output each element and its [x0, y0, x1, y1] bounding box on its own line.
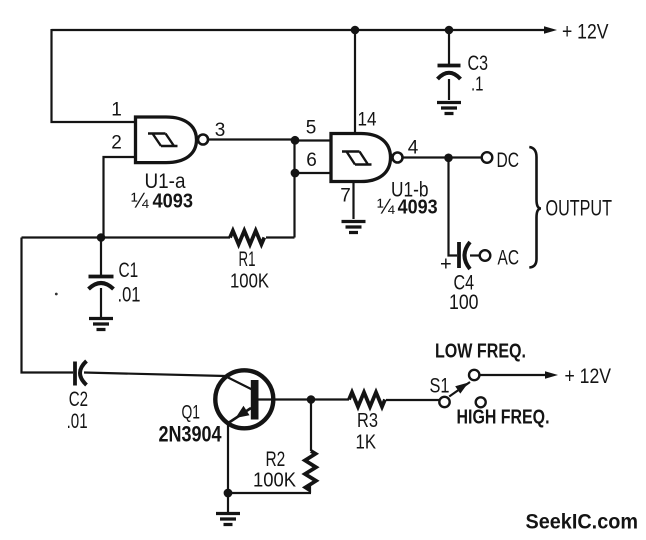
svg-text:2: 2 — [111, 133, 122, 154]
svg-text:4093: 4093 — [398, 197, 438, 219]
svg-text:R1: R1 — [239, 248, 256, 271]
svg-text:OUTPUT: OUTPUT — [546, 196, 613, 221]
svg-text:C3: C3 — [468, 52, 489, 75]
svg-text:6: 6 — [306, 150, 317, 171]
svg-text:¼: ¼ — [131, 190, 149, 213]
svg-text:SeekIC.com: SeekIC.com — [526, 510, 639, 534]
svg-text:C1: C1 — [119, 259, 139, 282]
svg-text:.01: .01 — [67, 410, 88, 433]
svg-text:.1: .1 — [471, 74, 484, 96]
svg-text:4: 4 — [408, 138, 419, 159]
svg-text:3: 3 — [215, 120, 226, 141]
svg-text:LOW FREQ.: LOW FREQ. — [435, 340, 526, 363]
svg-text:7: 7 — [340, 186, 351, 207]
svg-text:¼: ¼ — [377, 196, 395, 219]
svg-text:S1: S1 — [430, 375, 450, 398]
svg-text:+: + — [440, 254, 452, 276]
svg-text:1: 1 — [111, 100, 122, 121]
svg-text:100K: 100K — [230, 270, 269, 293]
svg-text:.01: .01 — [118, 284, 141, 307]
svg-text:4093: 4093 — [153, 191, 194, 213]
svg-text:5: 5 — [306, 118, 317, 139]
svg-text:DC: DC — [497, 148, 520, 172]
svg-text:14: 14 — [358, 110, 377, 131]
svg-text:HIGH FREQ.: HIGH FREQ. — [457, 406, 550, 429]
svg-text:Q1: Q1 — [182, 402, 201, 424]
svg-text:+ 12V: + 12V — [562, 21, 609, 44]
svg-text:C2: C2 — [69, 388, 88, 411]
svg-text:AC: AC — [498, 246, 520, 270]
svg-text:2N3904: 2N3904 — [159, 422, 223, 447]
svg-text:R3: R3 — [357, 409, 378, 432]
svg-text:1K: 1K — [356, 431, 377, 454]
svg-text:100K: 100K — [253, 469, 296, 492]
svg-text:+ 12V: + 12V — [565, 365, 612, 388]
svg-text:100: 100 — [449, 291, 479, 314]
